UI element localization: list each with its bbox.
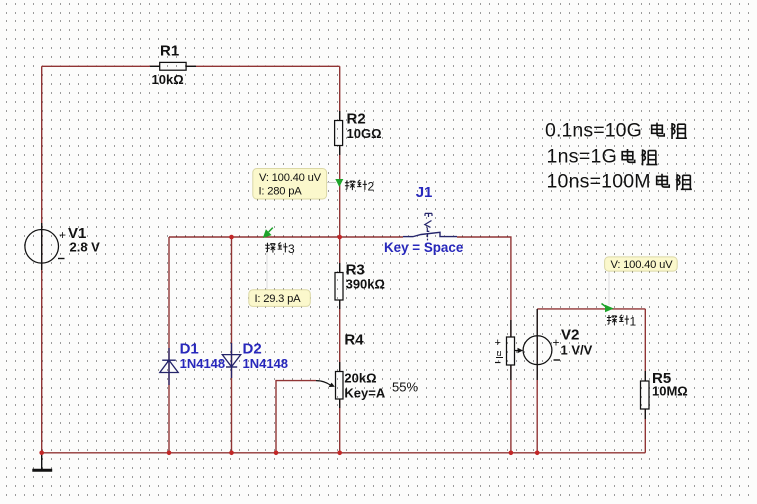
svg-text:390kΩ: 390kΩ [346,276,385,291]
wire D1 vertical [168,237,170,453]
svg-text:2.8 V: 2.8 V [70,239,101,254]
tooltip V probe1 [605,257,678,271]
svg-text:55%: 55% [392,380,418,395]
switch J1 [403,213,457,240]
svg-text:J1: J1 [416,184,433,201]
wire right vertical (R2/R3/R4 branch) [339,66,341,453]
svg-text:1ns=1G: 1ns=1G [547,146,618,168]
note line 3: 10ns=100M电阻 [547,170,692,192]
tooltip V/I probe2 [253,169,327,200]
probe 2 arrow [335,179,343,187]
tooltip connector probe2 [327,182,336,184]
wire J1 to V2 input corner [457,237,511,453]
svg-text:V: 100.40 uV: V: 100.40 uV [259,172,322,184]
svg-text:+: + [59,228,66,242]
tooltip connector probe3 [266,243,268,290]
wire R4 wiper branch [276,381,316,453]
diode D1 [160,348,178,385]
svg-text:+: + [553,336,560,350]
resistor R1 [150,62,196,70]
tooltip I probe3 [249,290,310,307]
wire top (V1 to R2 top) [42,65,340,67]
junction V2in/rail [509,451,514,456]
note line 2: 1ns=1G电阻 [547,146,658,168]
junction D1/rail [167,451,172,456]
svg-text:u: u [497,348,502,358]
svg-text:10kΩ: 10kΩ [152,72,184,87]
probe 1 arrow [605,305,614,312]
probe 1 label 探针1 [607,315,637,329]
svg-text:1: 1 [630,315,637,329]
svg-text:1 V/V: 1 V/V [561,343,593,358]
probe 3 label 探针3 [265,242,295,256]
svg-text:D1: D1 [180,341,199,358]
potentiometer R4 [316,362,343,408]
svg-text:R1: R1 [160,43,179,60]
ground [32,453,52,471]
junction wiper/rail [274,451,279,456]
svg-text:R4: R4 [344,332,364,349]
svg-text:V2: V2 [561,327,579,344]
svg-text:I: 29.3 pA: I: 29.3 pA [255,293,302,305]
wire V2 output vertical [536,309,538,453]
junction ground rail left [39,451,44,456]
probe 3 arrow [263,229,272,238]
svg-text:3: 3 [288,242,295,256]
svg-text:I: 280 pA: I: 280 pA [259,186,303,198]
note line 1: 0.1ns=10G电阻 [545,119,687,141]
svg-text:1N4148: 1N4148 [243,356,289,371]
svg-text:1N4148: 1N4148 [180,356,226,371]
wire left vertical (V1 branch) [41,66,43,453]
junction V2out/rail [535,451,540,456]
svg-text:Key=A: Key=A [344,386,385,401]
svg-text:10MΩ: 10MΩ [652,384,688,399]
svg-text:10GΩ: 10GΩ [347,126,382,141]
resistor R3 [335,263,343,309]
vcvs V2 [495,309,561,380]
tooltip connector probe1 [608,271,610,305]
wire middle horizontal (node to J1) [169,236,403,238]
resistor R2 [335,111,343,155]
junction D2/middle [229,235,234,240]
wire bottom rail [42,452,646,454]
svg-text:20kΩ: 20kΩ [344,370,376,385]
junction D2/rail [229,451,234,456]
wire R5 vertical [644,309,646,453]
svg-text:V: 100.40 uV: V: 100.40 uV [611,259,674,271]
junction R2R3/middle [337,235,342,240]
voltage source V1 [25,223,66,270]
junction R4/rail [337,451,342,456]
svg-text:2: 2 [368,180,375,194]
resistor R5 [641,371,650,419]
diode D2 [222,343,240,378]
wire D2 vertical [231,237,233,453]
svg-text:10ns=100M: 10ns=100M [547,170,651,192]
svg-text:0.1ns=10G: 0.1ns=10G [545,119,642,141]
probe 2 label 探针2 [345,180,375,194]
svg-text:Key = Space: Key = Space [384,240,463,255]
svg-text:D2: D2 [243,341,262,358]
wire top right (V2 to R5) [537,308,645,310]
